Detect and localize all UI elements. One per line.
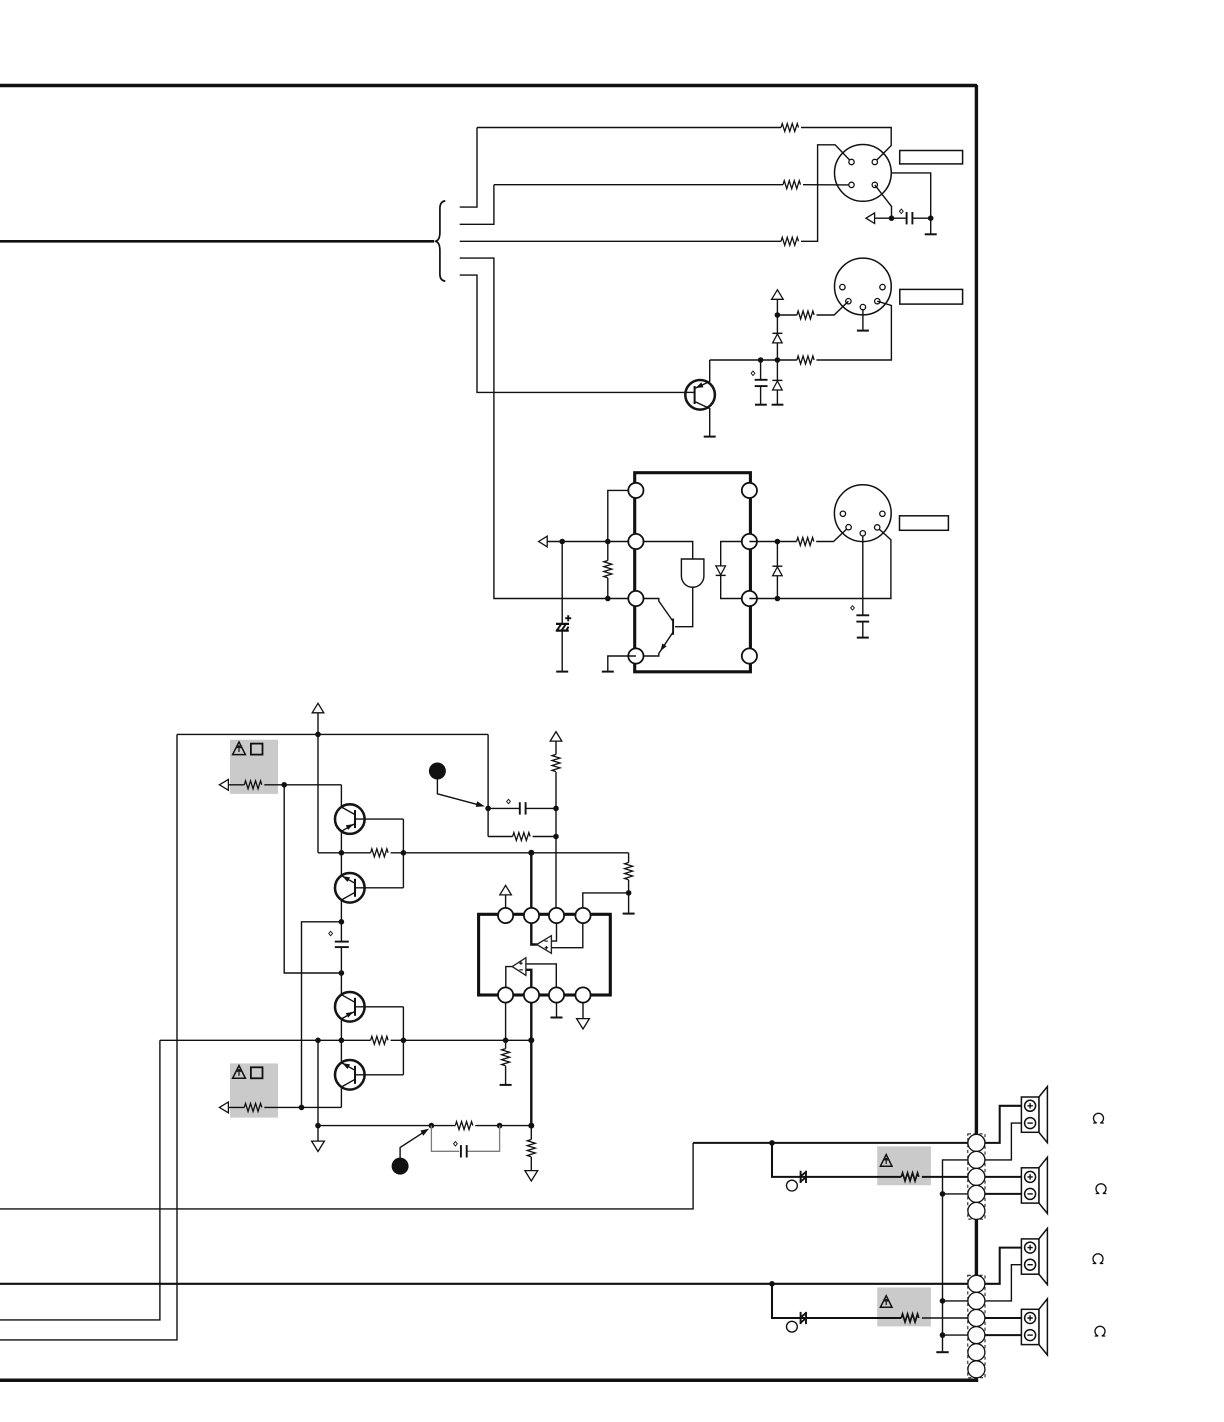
warning triangle S4 <box>880 1296 892 1308</box>
label box J3 <box>900 516 949 531</box>
label box J1 <box>900 151 963 164</box>
wire line A <box>477 127 781 129</box>
wire V1 to node K3 <box>776 299 778 315</box>
connector CN1 terminal 3 <box>968 1168 985 1185</box>
wire row K5-K4-R5 <box>710 359 797 361</box>
wire K34 to connector <box>943 1300 968 1302</box>
shaded box S4 <box>877 1288 931 1327</box>
ground bar below K2 <box>925 233 937 235</box>
wire into T1 collector <box>340 785 342 807</box>
U1 pad 3 <box>628 591 643 606</box>
connector CN2 terminal 1 <box>968 1275 985 1292</box>
fuse link F2 <box>800 1312 807 1324</box>
resistor RC <box>781 237 799 245</box>
wire K36 down to fuse row <box>772 1284 901 1318</box>
U1 pad 7 <box>742 591 757 606</box>
J2 pin 3 <box>880 284 885 289</box>
node K7 <box>605 539 611 545</box>
resistor R18 <box>901 1173 919 1181</box>
shaded box S1 <box>230 740 278 794</box>
node K11 <box>315 732 321 738</box>
wire K16 into T3 collector <box>340 973 342 995</box>
wire K7 to R7 <box>607 542 609 561</box>
wire U1 pad7 row to J3 <box>749 527 891 598</box>
U2 pad 8 <box>575 987 590 1002</box>
wire arrow to node K1 <box>875 217 906 219</box>
J3 pin 5 <box>875 525 880 530</box>
wire R11 to node K19 <box>533 836 556 838</box>
resistor R7 (vertical) <box>604 561 612 578</box>
label box J2 <box>900 289 963 304</box>
node K15 <box>339 919 345 925</box>
wire SP3 minus return <box>985 1265 1022 1301</box>
resistor R8 <box>244 781 261 789</box>
ground bar below R12 <box>623 913 635 915</box>
transistor T3 <box>335 992 365 1022</box>
wire V3 to R10 <box>555 741 557 754</box>
wire K5 to C2 <box>760 360 762 380</box>
wire R19 to connector <box>922 1317 968 1319</box>
signal arrow into U1 <box>539 536 548 547</box>
wire row 1125 <box>318 1125 455 1127</box>
wire SP2 plus <box>985 1176 1022 1178</box>
J2 pin 4 <box>846 299 851 304</box>
ground arrow below R17 <box>525 1171 538 1181</box>
wire J1 pin4 to node K1 <box>875 185 892 218</box>
wire K23 down to node K28 <box>317 1040 319 1125</box>
resistor R4 <box>797 311 814 319</box>
ground arrow below K28 <box>312 1141 325 1151</box>
border frame right (upper segment) <box>975 85 978 1135</box>
resistor RB <box>783 181 801 189</box>
resistor R12 (vertical) <box>625 863 633 880</box>
wire R15 to ground <box>505 1066 507 1084</box>
node K9 <box>775 539 781 545</box>
wire C2 to end bar <box>760 386 762 404</box>
wire R7 to node K8 <box>607 578 609 599</box>
J3 pin 4 <box>846 525 851 530</box>
wire J2 pin2 to ground <box>862 310 864 330</box>
wire K13 to T2 collector <box>340 853 342 876</box>
wire A2 non-inverting input to pad7 <box>526 964 556 988</box>
speaker SP3 <box>1021 1228 1047 1284</box>
J1 pin 3 <box>849 182 854 187</box>
wire U2 pad7 to ground <box>556 1003 558 1017</box>
wire node K2 down to ground <box>930 218 932 233</box>
node K23 <box>315 1038 321 1044</box>
node K18 <box>553 806 559 812</box>
border frame top <box>0 84 977 88</box>
wire R8 to node K12 <box>264 784 341 786</box>
ground bar Q1 <box>704 436 716 438</box>
switch lever SW1 <box>429 763 446 780</box>
wire left rail A (from supply row) <box>0 734 177 1340</box>
wire T2 base to column <box>355 887 403 889</box>
polarity mark C6 <box>507 799 511 803</box>
wire K3 to R4 <box>777 314 797 316</box>
node K13 <box>339 850 345 856</box>
border frame bottom <box>0 1379 978 1383</box>
ground bar C4 <box>857 637 869 639</box>
op-amp A1 <box>537 936 552 954</box>
U1 internal AND gate <box>681 559 704 587</box>
resistor R19 <box>901 1314 919 1322</box>
wire K33 to connector <box>943 1193 968 1195</box>
wire left rail B (from row 1040) <box>0 1040 160 1320</box>
node K21 (thick trace junction) <box>528 850 534 856</box>
J2 pin 2 <box>860 304 865 309</box>
wire R6 to J3 pin4 <box>816 527 848 541</box>
node K8 <box>605 596 611 602</box>
U2 pad 1 <box>498 908 513 923</box>
wire U2 pad5 down to row 1040 <box>505 1003 507 1041</box>
wire A1 non-inverting input to pad4 <box>551 923 582 948</box>
node K28 <box>315 1123 321 1129</box>
warning triangle S1 <box>233 742 246 755</box>
wire line A to DIN1 pin <box>801 128 891 163</box>
wire row 853 end to R12 <box>628 853 630 863</box>
node K1 <box>889 215 895 221</box>
diode D4 <box>772 565 782 567</box>
wire thick trace to op-amp A1 <box>531 853 537 945</box>
U1 internal transistor Qi <box>672 619 674 635</box>
wire row 1040 right part <box>391 1039 532 1041</box>
node K33 <box>940 1191 946 1197</box>
brace bus split <box>435 201 446 281</box>
resistor R16 <box>455 1122 473 1130</box>
wire row 853 right part <box>391 852 629 854</box>
wire base column T3-T4 <box>402 1007 404 1075</box>
wire arrow to pad row <box>547 541 636 543</box>
node K16 <box>339 970 345 976</box>
wire SP1 minus return <box>985 1123 1022 1160</box>
connector CN2 terminal 6 <box>968 1361 985 1378</box>
capacitor C5 <box>335 941 349 943</box>
switch lever SW2 <box>392 1158 409 1175</box>
wire stub 5 down to Q2 base <box>460 275 686 392</box>
warning triangle S3 <box>880 1155 892 1167</box>
resistor R14 <box>371 1036 389 1044</box>
connector CN2 terminal 4 <box>968 1327 985 1344</box>
wire U1 pad4 to ground <box>608 656 636 671</box>
transistor T4 <box>335 1060 365 1090</box>
wire supply rail down x488 <box>487 734 489 836</box>
U1 pad 6 <box>742 534 757 549</box>
wire SP2 minus <box>985 1193 1022 1195</box>
U1 pad 5 <box>742 483 757 498</box>
node K32 <box>769 1140 775 1146</box>
wire R13 to T4 emitter <box>264 1106 341 1108</box>
label SP1 impedance <box>1093 1113 1104 1123</box>
signal arrow S1 <box>219 779 228 790</box>
wire speaker feed row 1143 <box>693 1142 968 1144</box>
U2 pad 6 <box>524 987 539 1002</box>
wire T1 emitter to node K13 <box>340 831 342 853</box>
node K17 <box>485 806 491 812</box>
wire node K2 up to J1 shell <box>891 173 930 218</box>
node K12 <box>281 782 287 788</box>
speaker SP1 <box>1021 1087 1047 1143</box>
wire row 836 <box>488 836 512 838</box>
polarity mark C5 <box>329 931 333 935</box>
connector block CN1 dashed outline <box>968 1134 985 1219</box>
connector CN1 terminal 1 <box>968 1134 985 1151</box>
U2 pad 3 <box>549 908 564 923</box>
node K10 <box>775 596 781 602</box>
resistor R13 <box>244 1103 261 1111</box>
J3 pin 1 <box>840 511 845 516</box>
node K6 <box>559 539 565 545</box>
diode D1 <box>772 332 782 334</box>
wire R10 down to U2 pad3 <box>555 772 557 908</box>
speaker SP4 <box>1021 1299 1047 1355</box>
resistor R15 (vertical) <box>502 1049 510 1066</box>
wire T3 base to column <box>355 1006 403 1008</box>
node K20 <box>626 890 632 896</box>
U1 internal wire pad2 to gate <box>643 542 692 560</box>
J1 pin 4 <box>872 182 877 187</box>
U2 pad 4 <box>575 908 590 923</box>
power arrow V3 <box>550 732 562 742</box>
terminal bar below C2 <box>755 404 767 406</box>
resistor R11 <box>513 833 531 841</box>
node K29 <box>429 1123 435 1129</box>
ground bar R15 <box>500 1084 512 1086</box>
node K3 <box>775 312 781 318</box>
wire C1 to node K2 <box>912 217 930 219</box>
resistor R6 <box>797 538 814 546</box>
wire K15 jog rail down <box>302 922 342 1108</box>
op-amp A2 <box>512 958 526 976</box>
wire D4 to node K10 <box>776 576 778 599</box>
small square S2 <box>251 1067 263 1078</box>
wire A2 output to U2 pad5 <box>506 967 512 988</box>
polarity mark C1 <box>899 209 903 213</box>
wire R5 to J2 pin5 <box>817 301 892 360</box>
wire T3 emitter to node K22 <box>340 1019 342 1040</box>
J3 pin 2 <box>860 531 865 536</box>
node K35 <box>940 1332 946 1338</box>
J3 pin 3 <box>880 511 885 516</box>
wire T4 emitter down <box>340 1087 342 1107</box>
wire bottom feed row 1284 (to lower connector) <box>0 1283 968 1285</box>
U2 pad 7 <box>549 987 564 1002</box>
wire row 1040 left part <box>160 1039 371 1041</box>
wire D1 to node K4 <box>776 343 778 360</box>
capacitor C2 <box>755 379 768 381</box>
wire A2 inverting input thick trace down <box>526 970 531 1126</box>
wire row 853 <box>318 852 371 854</box>
node K2 <box>928 215 934 221</box>
wire R4 to J2 pin4 <box>817 301 849 315</box>
transistor T2 <box>335 873 365 903</box>
ground arrow U2 pad8 <box>577 1019 590 1029</box>
shaded box S2 <box>230 1063 278 1117</box>
polarity mark C2 <box>751 371 755 375</box>
connector CN1 terminal 5 <box>968 1202 985 1219</box>
small square S1 <box>251 744 263 755</box>
node K19 <box>553 834 559 840</box>
wire R12 to node K20 <box>628 880 630 913</box>
wire K8 to U1 pad3 <box>608 598 636 600</box>
node K5 <box>758 357 764 363</box>
wire K3 to D1 <box>776 315 778 333</box>
test point TP1 <box>787 1180 798 1191</box>
node K22 <box>339 1038 345 1044</box>
wire supply row y734 <box>177 733 488 735</box>
node K34 <box>940 1298 946 1304</box>
connector J2 (DIN 5-pin) <box>835 258 892 315</box>
IC U2 body <box>479 914 611 995</box>
U2 pad 2 <box>524 908 539 923</box>
diode D2 <box>772 379 782 381</box>
J2 pin 1 <box>840 284 845 289</box>
wire U1 pad6 to node K9 <box>749 541 796 543</box>
polarity mark C7 <box>454 1142 458 1146</box>
polarity mark C3 <box>565 615 571 621</box>
wire stub 4 down to IC1 <box>460 258 608 598</box>
resistor R10 (vertical) <box>552 754 560 771</box>
wire K28 to ground arrow <box>317 1126 319 1141</box>
wire line B to DIN1 pin <box>803 184 852 186</box>
border frame right (segment between connector groups) <box>975 1219 978 1275</box>
transistor Q1 <box>685 380 715 410</box>
wire input bus (thick) <box>0 240 434 243</box>
transistor T1 <box>335 804 365 834</box>
wire T4 base to column <box>355 1074 403 1076</box>
test point TP2 <box>787 1321 798 1332</box>
wire C6 to node K18 <box>526 807 556 809</box>
connector CN2 terminal 3 <box>968 1310 985 1327</box>
node K4 <box>775 357 781 363</box>
wire K15 to C5 <box>340 922 342 942</box>
label SP2 impedance <box>1096 1184 1107 1194</box>
IC U1 body <box>635 473 751 672</box>
connector block CN2 dashed outline <box>968 1275 985 1378</box>
capacitor C7 loop (gray) <box>431 1126 459 1152</box>
connector CN1 terminal 2 <box>968 1151 985 1168</box>
wire U2 pad3 to A1 inverting input <box>551 923 556 941</box>
capacitor C3 (electrolytic) <box>556 542 569 671</box>
wire U1 pad1 loop <box>608 490 636 541</box>
node K36 <box>769 1281 775 1287</box>
ground bar return <box>936 1351 948 1353</box>
wire V2 rail down to row 853 <box>317 734 319 852</box>
capacitor C6 <box>519 802 521 814</box>
wire arrow to R13 <box>228 1106 244 1108</box>
wire stub 1 to line A <box>460 128 477 208</box>
signal arrow out J1 <box>866 213 875 224</box>
capacitor C7 plates <box>460 1145 462 1157</box>
wire SP3 plus feed <box>985 1248 1022 1284</box>
J2 pin 5 <box>875 299 880 304</box>
ground bar U2 pad7 <box>551 1017 563 1019</box>
wire K4 to D2 <box>776 360 778 380</box>
wire D2 to end bar <box>776 390 778 404</box>
wire R16 to thick trace <box>475 1125 531 1127</box>
connector CN1 terminal 4 <box>968 1185 985 1202</box>
wire stub 2 to line B <box>460 185 494 225</box>
node K26 <box>528 1037 534 1043</box>
wire R18 to connector <box>922 1176 968 1178</box>
node K14 <box>401 850 407 856</box>
warning triangle S2 <box>233 1066 246 1079</box>
wire R17 to ground arrow <box>530 1157 532 1170</box>
wire line C up to DIN1 pin <box>801 145 852 242</box>
wire V2 to node K11 <box>317 713 319 735</box>
node K27 <box>299 1105 305 1111</box>
wire Q1 collector up to row K5 <box>709 360 711 382</box>
shaded box S3 <box>877 1146 931 1185</box>
J1 pin 1 <box>849 159 854 164</box>
wire V4 to U2 pad1 <box>505 895 507 908</box>
wire K25 to R15 <box>505 1040 507 1048</box>
wire C4 to ground <box>862 622 864 637</box>
wire K35 to connector <box>943 1334 968 1336</box>
wire Q1 emitter to ground <box>709 408 711 436</box>
wire U2 pad8 to ground arrow <box>582 1003 584 1019</box>
speaker SP2 <box>1021 1157 1047 1213</box>
wire line B <box>494 184 783 186</box>
ground bar U1 pad4 <box>602 671 614 673</box>
U1 pad 2 <box>628 534 643 549</box>
wire K17 to C6 <box>488 807 520 809</box>
U2 pad 5 <box>498 987 513 1002</box>
wire speaker return riser <box>943 1160 968 1352</box>
ground bar J2 <box>857 330 869 332</box>
wire T1 base to column <box>355 818 403 820</box>
wire stub 3 / line C <box>460 240 781 242</box>
capacitor C4 <box>856 614 869 616</box>
U1 internal diode D3 <box>716 542 742 599</box>
power arrow V2 <box>312 703 324 713</box>
node K31 <box>528 1123 534 1129</box>
connector J1 (DIN) <box>835 145 892 202</box>
wire K22 to T4 collector <box>340 1040 342 1062</box>
fuse link F1 <box>800 1171 807 1183</box>
wire SP4 plus <box>985 1317 1022 1319</box>
wire SP4 minus <box>985 1334 1022 1336</box>
capacitor C1 <box>906 212 908 224</box>
wire J3 pin2 to C4 <box>862 536 864 615</box>
label SP4 impedance <box>1095 1326 1106 1336</box>
U1 pad 1 <box>628 483 643 498</box>
label SP3 impedance <box>1093 1254 1104 1264</box>
wire bottom feed row 1209 <box>0 1143 693 1209</box>
wire K20 to U2 pad4 <box>583 893 629 908</box>
wire K12 rail down <box>284 785 341 973</box>
wire K31 to R17 <box>530 1126 532 1140</box>
wire K32 down to fuse row <box>772 1143 901 1177</box>
wire C5 to node K16 <box>340 947 342 973</box>
wire T2 emitter to node K15 <box>340 900 342 922</box>
resistor R17 (vertical) <box>527 1140 535 1157</box>
power arrow V4 <box>500 885 512 895</box>
polarity mark C4 <box>851 606 855 610</box>
connector J3 (DIN 5-pin) <box>834 485 891 542</box>
node K30 <box>497 1123 503 1129</box>
wire SP1 plus feed <box>985 1106 1022 1143</box>
resistor R9 <box>371 849 389 857</box>
terminal bar below D2 <box>772 404 784 406</box>
U1 pad 4 <box>628 648 643 663</box>
J1 pin 2 <box>872 159 877 164</box>
U1 internal wire gate to Qi base <box>675 587 693 626</box>
terminal bar below C3 <box>556 671 568 673</box>
connector CN2 terminal 2 <box>968 1292 985 1309</box>
U1 pad 8 <box>742 648 757 663</box>
connector CN2 terminal 5 <box>968 1344 985 1361</box>
